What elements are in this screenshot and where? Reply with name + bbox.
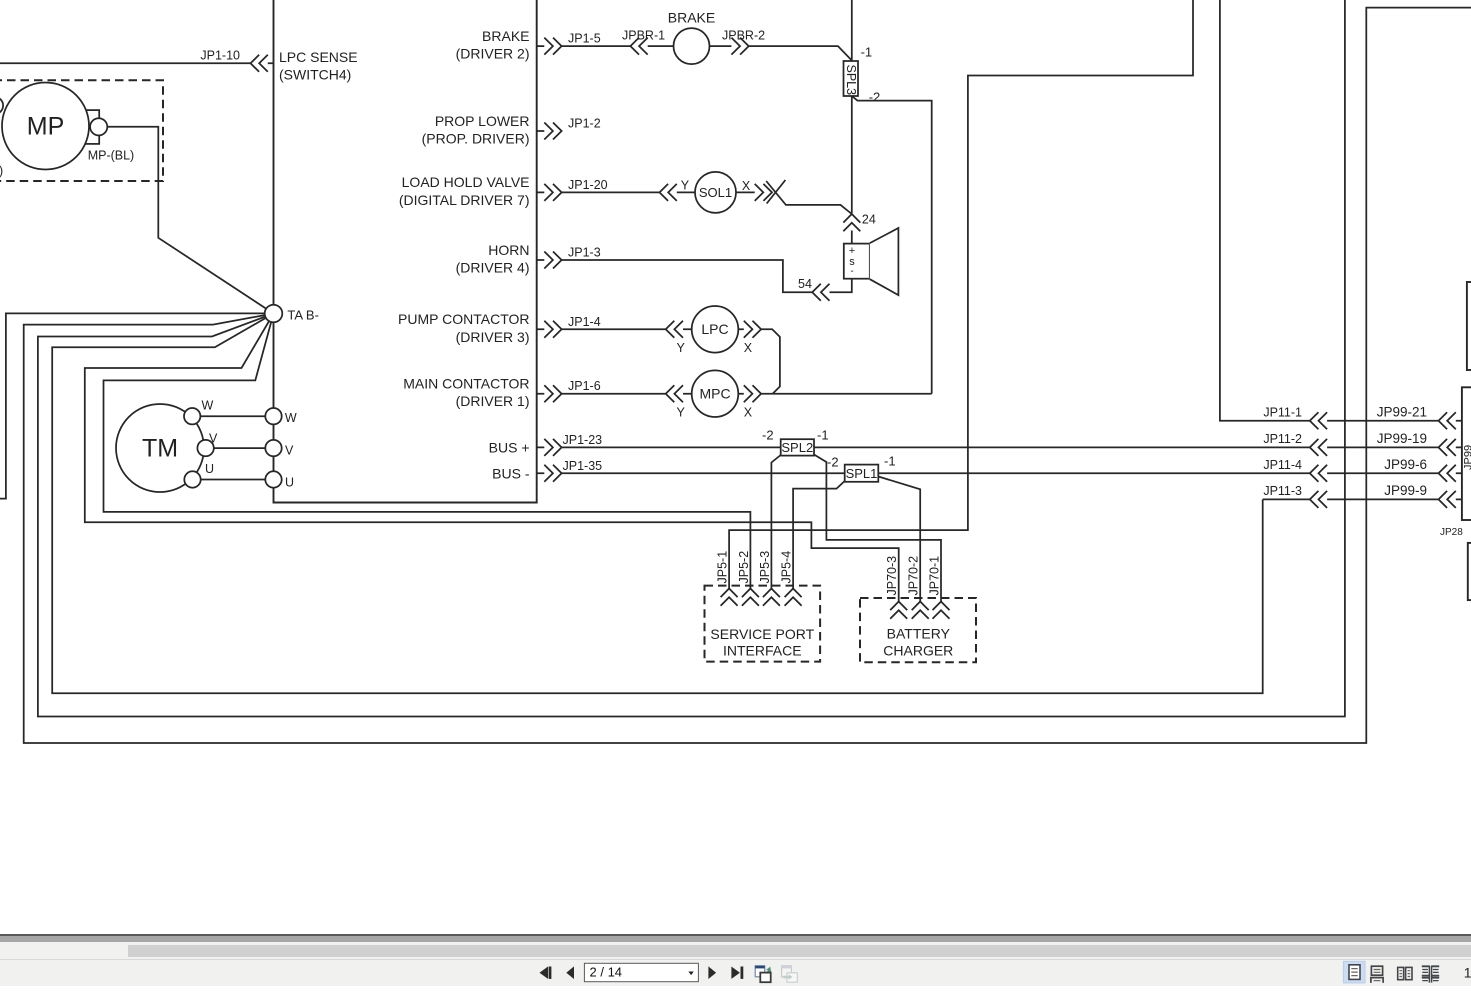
splice SPL1 box — [845, 465, 879, 482]
connector box JP28 right edge — [1468, 543, 1471, 600]
wire top edge to JP5-1 — [729, 0, 1193, 589]
svg-text:W: W — [285, 411, 297, 425]
svg-text:BATTERY: BATTERY — [887, 626, 951, 642]
svg-text:JP1-10: JP1-10 — [200, 48, 240, 62]
wire SPL2 -2 to JP5-3 — [771, 455, 780, 589]
svg-text:MP-(BL): MP-(BL) — [88, 149, 135, 163]
terminal strip U — [265, 471, 281, 487]
button open in new window — [755, 966, 771, 982]
node TA B- — [265, 305, 283, 323]
wire SPL3 bottom to connector 24 — [851, 96, 853, 244]
motor MP dashed enclosure — [0, 80, 163, 181]
svg-text:Y: Y — [681, 179, 690, 193]
terminal strip V — [265, 440, 281, 456]
svg-text:JP5-3: JP5-3 — [758, 551, 772, 584]
connector chevrons JP5-4 — [785, 589, 802, 606]
svg-text:LPC: LPC — [701, 321, 728, 337]
connector chevrons JP1-6 — [544, 385, 561, 402]
svg-text:BRAKE: BRAKE — [482, 28, 529, 44]
connector box upper right edge — [1467, 282, 1471, 370]
svg-text:(PROP. DRIVER): (PROP. DRIVER) — [422, 131, 530, 147]
connector chevrons JP1-5 — [544, 38, 561, 55]
wire TM W to terminal strip — [200, 415, 266, 417]
svg-text:JP28: JP28 — [1440, 527, 1463, 538]
svg-text:JP70-2: JP70-2 — [907, 556, 921, 596]
svg-text:JP5-4: JP5-4 — [780, 551, 794, 584]
svg-text:JP1-4: JP1-4 — [568, 315, 601, 329]
wire PUMP CONTACTOR JP1-4 — [537, 329, 780, 393]
svg-text:JP70-1: JP70-1 — [927, 556, 941, 596]
connector chevrons JP1-20 — [544, 184, 561, 201]
wire bus TA B- to top via loop B — [38, 0, 1345, 717]
wire TA B- to left edge exit — [0, 313, 274, 498]
svg-text:-: - — [850, 266, 853, 277]
svg-text:BUS -: BUS - — [492, 465, 530, 481]
terminal TM U — [184, 471, 200, 487]
wire BUS- JP1-35 to JP11-4 — [537, 472, 1462, 474]
svg-text:JPBR-1: JPBR-1 — [622, 28, 665, 42]
terminal MP-(BL) — [90, 118, 107, 135]
service port interface dashed box — [705, 586, 821, 662]
page number box 2 / 14 — [584, 963, 698, 981]
motor MP body — [2, 83, 89, 170]
svg-text:JP99-6: JP99-6 — [1384, 457, 1427, 472]
wire JP1-10 LPC SENSE — [0, 62, 274, 64]
svg-text:JP1-23: JP1-23 — [563, 433, 603, 447]
motor TM body — [116, 404, 204, 492]
wire JP11-1 row from top edge — [1220, 0, 1462, 421]
wire SPL3 top to image top — [851, 0, 853, 61]
svg-text:JP1-35: JP1-35 — [563, 459, 603, 473]
svg-text:X: X — [744, 341, 753, 355]
wire TM U to terminal strip — [201, 479, 267, 481]
motor MP terminal bracket — [85, 110, 100, 144]
terminal cut off at left edge — [0, 97, 3, 114]
connector chevrons JPBR-2 — [731, 38, 748, 55]
wire TA B- to JP70-3 — [85, 314, 899, 602]
button open in new window disabled — [782, 966, 798, 982]
wire bus TA B- to JP99 via bottom loop C — [24, 8, 1471, 743]
connector chevrons JPBR-1 — [630, 38, 647, 55]
svg-text:INTERFACE: INTERFACE — [723, 642, 802, 658]
svg-text:(SWITCH4): (SWITCH4) — [279, 67, 351, 83]
connector chevrons JP1-10 — [251, 55, 268, 72]
connector chevrons JP11-1 — [1310, 412, 1327, 429]
svg-text:JP99: JP99 — [1463, 445, 1471, 470]
svg-text:CHARGER: CHARGER — [883, 643, 953, 659]
wire LOAD HOLD VALVE JP1-20 — [537, 191, 755, 193]
svg-text:JP70-3: JP70-3 — [885, 556, 899, 596]
svg-text:2 / 14: 2 / 14 — [590, 965, 623, 980]
svg-text:): ) — [0, 164, 3, 178]
svg-text:(DRIVER 2): (DRIVER 2) — [456, 46, 530, 62]
wire BRAKE row JP1-5 — [537, 46, 852, 60]
svg-text:BRAKE: BRAKE — [668, 10, 715, 26]
button first page — [540, 967, 552, 979]
splice SPL3 box — [844, 61, 859, 96]
contact cross X after SOL1 — [766, 180, 852, 214]
battery charger dashed box — [860, 598, 976, 662]
svg-text:1: 1 — [1464, 965, 1471, 981]
wire MP-(BL) to TA B- — [107, 127, 273, 314]
svg-text:JPBR-2: JPBR-2 — [722, 28, 765, 42]
splice SPL2 box — [781, 439, 814, 455]
connector chevrons JP99-6 — [1439, 465, 1456, 482]
svg-text:-1: -1 — [817, 428, 829, 443]
brake coil BRAKE — [674, 28, 710, 64]
svg-text:TA B-: TA B- — [287, 308, 319, 323]
svg-text:U: U — [205, 462, 214, 476]
horn speaker HN1 cone — [870, 228, 899, 295]
svg-text:-1: -1 — [884, 454, 896, 469]
button previous page — [566, 966, 574, 979]
terminal TM V — [197, 440, 213, 456]
wire TA B- to JP5-2 — [104, 314, 751, 589]
svg-text:-2: -2 — [869, 90, 881, 105]
svg-text:SPL2: SPL2 — [781, 440, 813, 455]
wire SPL2 -1 to JP70-1 — [814, 455, 941, 602]
svg-text:SERVICE PORT: SERVICE PORT — [710, 626, 814, 642]
connector box JP99 right edge — [1462, 387, 1471, 520]
svg-text:LPC SENSE: LPC SENSE — [279, 49, 358, 65]
button continuous view — [1371, 966, 1383, 983]
contactor coil LPC — [692, 306, 739, 353]
terminal strip W — [265, 408, 281, 424]
connector chevrons JP1-3 — [544, 252, 561, 269]
connector chevrons JP5-1 — [721, 589, 738, 606]
connector 24 chevrons — [843, 214, 860, 231]
svg-text:(DIGITAL DRIVER 7): (DIGITAL DRIVER 7) — [399, 192, 530, 208]
svg-text:V: V — [285, 444, 294, 458]
svg-text:PROP LOWER: PROP LOWER — [435, 113, 530, 129]
svg-text:LOAD HOLD VALVE: LOAD HOLD VALVE — [402, 174, 530, 190]
connector chevrons LPC Y — [666, 321, 683, 338]
svg-text:JP1-3: JP1-3 — [568, 246, 601, 260]
connector chevrons JP99-21 — [1439, 412, 1456, 429]
wire SPL1 -1 to JP70-2 — [878, 477, 920, 602]
svg-text:Y: Y — [677, 341, 686, 355]
svg-text:-2: -2 — [762, 428, 774, 443]
button single page view (active) — [1343, 961, 1365, 983]
svg-text:V: V — [209, 432, 218, 446]
svg-text:-2: -2 — [827, 455, 839, 470]
wire SPL3 -2 branch to MPC output — [852, 96, 932, 394]
svg-text:24: 24 — [862, 213, 876, 227]
svg-text:JP99-21: JP99-21 — [1377, 405, 1427, 420]
svg-text:W: W — [202, 399, 214, 413]
wire bus TA B- to JP11-3 via loop A — [52, 314, 1263, 694]
horn speaker HN1 box — [844, 244, 870, 279]
button continuous facing view — [1422, 966, 1439, 983]
button last page — [731, 967, 743, 979]
svg-text:JP1-6: JP1-6 — [568, 379, 601, 393]
svg-text:JP11-1: JP11-1 — [1263, 406, 1302, 420]
svg-text:(DRIVER 4): (DRIVER 4) — [456, 260, 530, 276]
svg-text:JP99-19: JP99-19 — [1377, 431, 1427, 446]
svg-text:(DRIVER 3): (DRIVER 3) — [456, 329, 530, 345]
connector chevrons JP11-2 — [1310, 439, 1327, 456]
wire JP11-3 row — [1263, 498, 1462, 500]
connector chevrons JP70-2 — [912, 602, 929, 619]
connector chevrons MPC X — [744, 385, 761, 402]
solenoid SOL1 — [695, 172, 736, 213]
svg-text:SPL3: SPL3 — [844, 65, 858, 96]
svg-text:-1: -1 — [861, 45, 873, 60]
svg-text:MPC: MPC — [699, 385, 730, 401]
button facing pages view — [1398, 967, 1412, 979]
svg-text:JP11-3: JP11-3 — [1263, 484, 1302, 498]
connector chevrons SOL1 X — [755, 184, 772, 201]
wire TM V to terminal strip — [214, 447, 266, 449]
svg-text:SPL1: SPL1 — [846, 466, 878, 481]
connector chevrons JP99-9 — [1439, 491, 1456, 508]
terminal TM W — [184, 408, 200, 424]
svg-text:MP: MP — [27, 113, 65, 141]
svg-text:Y: Y — [677, 406, 686, 420]
wire MAIN CONTACTOR JP1-6 — [537, 393, 932, 395]
svg-text:X: X — [742, 179, 751, 193]
svg-text:54: 54 — [798, 277, 812, 291]
svg-text:JP99-9: JP99-9 — [1384, 483, 1427, 498]
wire PROP LOWER stub JP1-2 — [537, 130, 545, 132]
wire SPL1 -2 to JP5-4 — [793, 481, 845, 589]
connector 54 chevrons — [812, 284, 829, 301]
connector chevrons JP70-3 — [890, 602, 907, 619]
svg-text:SOL1: SOL1 — [699, 185, 732, 200]
svg-text:U: U — [285, 476, 294, 490]
connector chevrons JP5-2 — [742, 589, 759, 606]
connector chevrons JP99-19 — [1439, 439, 1456, 456]
svg-text:HORN: HORN — [488, 242, 529, 258]
connector chevrons SOL1 Y — [660, 184, 677, 201]
svg-text:JP1-5: JP1-5 — [568, 32, 601, 46]
connector chevrons JP70-1 — [933, 602, 950, 619]
wire HORN JP1-3 to speaker — [537, 260, 852, 292]
controller box U1 outline — [274, 0, 537, 503]
button next page — [708, 966, 716, 979]
svg-text:MAIN CONTACTOR: MAIN CONTACTOR — [403, 376, 529, 392]
connector chevrons LPC X — [744, 321, 761, 338]
connector chevrons JP5-3 — [763, 589, 780, 606]
svg-text:JP5-2: JP5-2 — [737, 551, 751, 584]
connector chevrons JP1-2 — [544, 123, 561, 140]
connector chevrons JP1-23 — [544, 439, 561, 456]
wire BUS+ JP1-23 to JP11-2 — [537, 446, 1462, 448]
connector chevrons JP1-4 — [544, 321, 561, 338]
svg-text:PUMP CONTACTOR: PUMP CONTACTOR — [398, 311, 529, 327]
connector chevrons JP1-35 — [544, 465, 561, 482]
svg-text:X: X — [744, 406, 753, 420]
connector chevrons JP11-4 — [1310, 465, 1327, 482]
svg-text:JP1-20: JP1-20 — [568, 178, 608, 192]
svg-text:BUS +: BUS + — [489, 439, 530, 455]
svg-text:(DRIVER 1): (DRIVER 1) — [456, 393, 530, 409]
svg-text:TM: TM — [142, 435, 178, 463]
connector chevrons JP11-3 — [1310, 491, 1327, 508]
connector chevrons MPC Y — [666, 385, 683, 402]
contactor coil MPC — [692, 370, 739, 417]
svg-text:JP1-2: JP1-2 — [568, 117, 601, 131]
svg-text:JP11-4: JP11-4 — [1263, 458, 1302, 472]
svg-text:JP11-2: JP11-2 — [1263, 432, 1302, 446]
svg-text:JP5-1: JP5-1 — [716, 551, 730, 584]
